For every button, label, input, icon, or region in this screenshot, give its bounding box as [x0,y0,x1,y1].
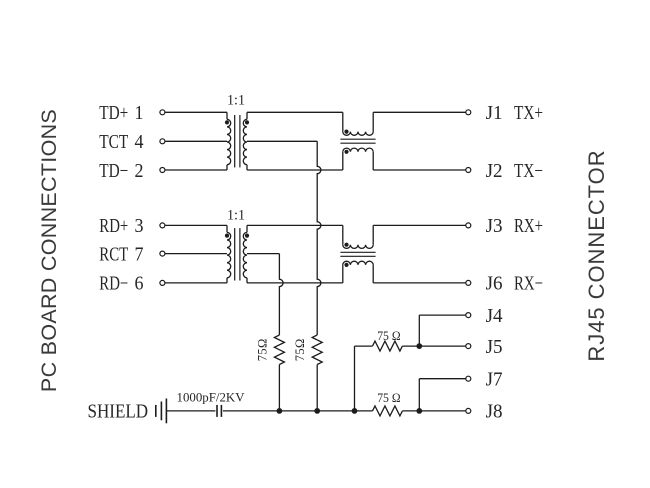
T1 secondary winding [243,119,247,164]
T1 wire [165,140,227,142]
T1 wire [226,112,228,119]
svg-text:RD+: RD+ [99,215,128,237]
transformer T1 [165,92,249,170]
T2 wire [246,278,248,283]
svg-text:75 Ω: 75 Ω [377,391,400,405]
terminal J1 [466,110,471,115]
wire TX- to choke [247,169,343,171]
T2 polarity dot [245,234,249,238]
svg-text:1:1: 1:1 [227,92,245,108]
svg-text:TX+: TX+ [514,102,543,124]
svg-text:RJ45 CONNECTOR: RJ45 CONNECTOR [584,149,609,361]
svg-text:75Ω: 75Ω [255,338,269,361]
L1 top winding [343,132,373,136]
svg-text:J7: J7 [486,369,503,391]
junction [416,343,422,349]
L2 wire [342,265,344,283]
wire RCT to node [247,253,279,255]
L1 wire [342,152,344,170]
wire riser to J7 row [418,379,420,411]
terminal J2 [466,168,471,173]
T1 wire [226,165,228,170]
svg-text:TD+: TD+ [99,102,128,124]
terminal RD- [160,280,165,285]
T1 wire [165,169,227,171]
junction [314,408,320,414]
T2 secondary winding [243,232,247,277]
shield bar 3 [165,399,167,424]
L1 wire [372,152,374,170]
wire to J7 [419,378,465,380]
svg-text:75 Ω: 75 Ω [377,329,400,343]
L1 core [340,142,375,144]
wire RX+ to choke [247,224,343,226]
svg-text:2: 2 [135,160,144,182]
T2 polarity dot [225,234,229,238]
svg-text:SHIELD: SHIELD [88,401,149,423]
common-mode choke L2 [340,225,375,283]
L2 polarity dot [344,243,348,247]
svg-text:J2: J2 [486,160,503,182]
T1 polarity dot [245,120,249,124]
wire to J2 [373,169,465,171]
capacitor C1 plate [216,405,218,417]
T2 wire [165,282,227,284]
resistor R1 75ohm [274,335,284,365]
shield bar 2 [160,402,162,421]
T2 wire [246,225,248,232]
svg-text:TD−: TD− [99,160,128,182]
svg-text:7: 7 [135,243,144,265]
terminal RD+ [160,223,165,228]
L2 core [340,251,375,253]
transformer T2 [165,208,249,283]
wire TCT to node [247,140,317,142]
L1 wire [372,112,374,131]
L2 polarity dot [344,263,348,267]
T1 wire [165,111,227,113]
svg-text:75Ω: 75Ω [293,338,307,361]
svg-text:4: 4 [135,131,144,153]
L2 wire [372,225,374,244]
T2 wire [165,224,227,226]
svg-text:RD−: RD− [99,273,128,295]
wire R1 to bus [278,365,280,411]
terminal TCT [160,139,165,144]
resistor R3 75ohm [373,341,403,351]
resistor R2 75ohm [312,335,322,365]
svg-text:J3: J3 [486,215,503,237]
T2 wire [226,225,228,232]
terminal J6 [466,280,471,285]
svg-text:1000pF/2KV: 1000pF/2KV [177,390,245,404]
T2 primary winding [227,232,231,277]
L2 bottom winding [343,261,373,265]
terminal J7 [466,376,471,381]
T1 polarity dot [225,120,229,124]
svg-text:RX−: RX− [514,273,543,295]
terminal J3 [466,223,471,228]
svg-text:J6: J6 [486,273,503,295]
svg-text:RX+: RX+ [514,215,543,237]
wire to J1 [373,111,465,113]
wire R3 to J5 [402,345,465,347]
svg-text:J1: J1 [486,102,503,124]
capacitor C1 plate [220,405,222,417]
L1 wire [342,112,344,131]
terminal J5 [466,344,471,349]
svg-text:J5: J5 [486,336,503,358]
svg-text:PC BOARD CONNECTIONS: PC BOARD CONNECTIONS [37,109,61,392]
L1 core [340,138,375,140]
L1 bottom winding [343,148,373,152]
wire to R3 [355,345,373,347]
wire shield to C1 [166,410,215,412]
svg-text:3: 3 [135,215,144,237]
junction [277,408,283,414]
L1 polarity dot [344,150,348,154]
L2 core [340,255,375,257]
wire R4 to J8 [402,410,465,412]
T2 wire [165,253,227,255]
L2 top winding [343,245,373,249]
wire to J6 [373,282,465,284]
L1 polarity dot [344,130,348,134]
svg-text:RCT: RCT [99,243,128,265]
terminal TD+ [160,110,165,115]
common-mode choke L1 [340,112,375,170]
wire to J4 [419,314,465,316]
terminal RCT [160,251,165,256]
T1 wire [246,165,248,170]
svg-text:1: 1 [135,102,144,124]
T1 core [239,115,241,167]
svg-text:6: 6 [135,273,144,295]
L2 wire [372,265,374,283]
svg-text:TX−: TX− [514,160,543,182]
svg-text:1:1: 1:1 [227,208,245,224]
terminal TD- [160,168,165,173]
junction [352,408,358,414]
T1 wire [246,112,248,119]
terminal J4 [466,313,471,318]
svg-text:TCT: TCT [99,131,128,153]
T1 core [234,115,236,167]
wire RX- to choke [247,282,343,284]
wire riser to J4 row [418,315,420,346]
T2 core [234,228,236,280]
T1 primary winding [227,119,231,164]
resistor R4 75ohm [373,406,403,416]
T2 wire [226,278,228,283]
wire R2 to bus [316,365,318,411]
wire C1 to bus [223,410,373,412]
wire RCT node down [279,254,283,335]
svg-text:J4: J4 [486,305,503,327]
wire to J3 [373,224,465,226]
shield bar 1 [155,405,157,417]
wire bus riser to J5 row [354,346,356,411]
wire TCT node down [317,141,321,335]
L2 wire [342,225,344,244]
junction [416,408,422,414]
wire TX+ to choke [247,111,343,113]
terminal J8 [466,408,471,413]
T2 core [239,228,241,280]
svg-text:J8: J8 [486,401,503,423]
